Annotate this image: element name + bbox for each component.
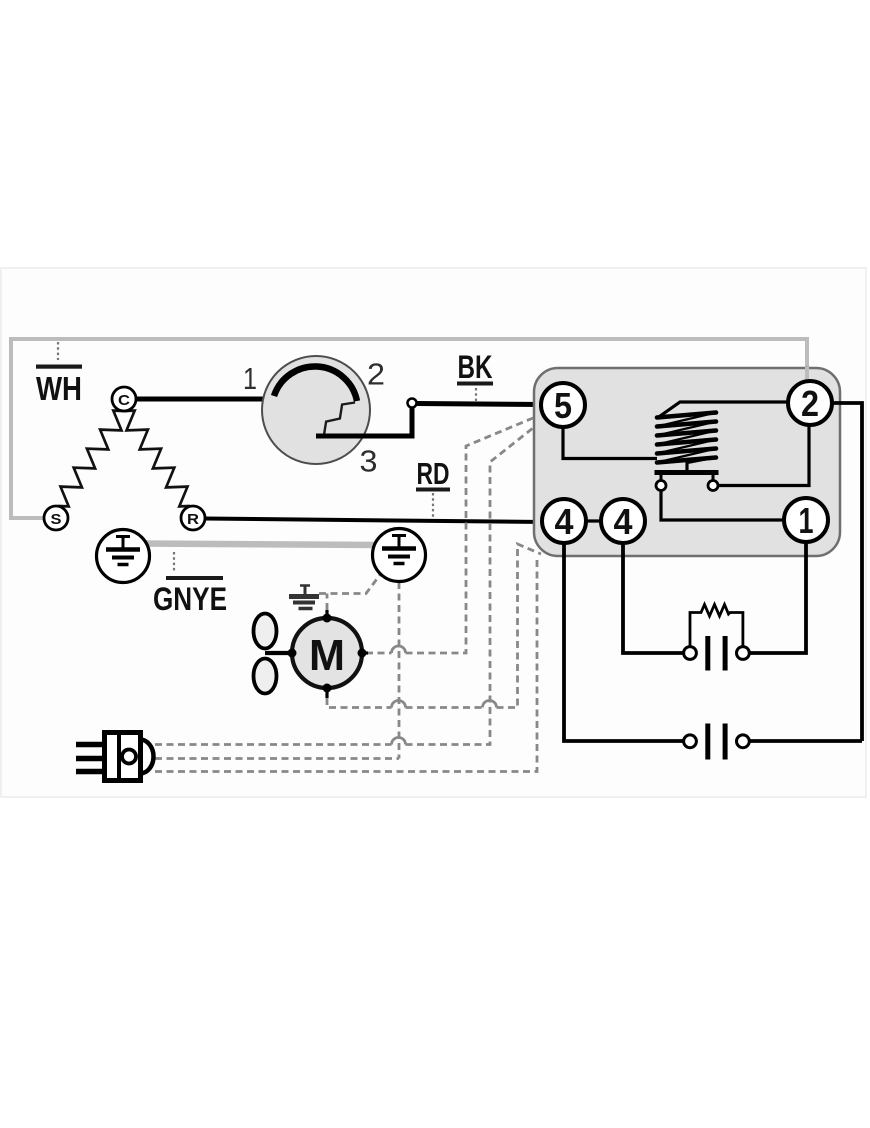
svg-text:R: R bbox=[187, 511, 199, 528]
relay terminal 5 bbox=[541, 383, 585, 427]
svg-text:GNYE: GNYE bbox=[153, 581, 227, 617]
contact legs bbox=[660, 474, 663, 480]
svg-text:3: 3 bbox=[360, 444, 378, 479]
dashed: earth lead from ground-2 to plug middle bbox=[155, 582, 399, 759]
wire left contact to terminal 1 bbox=[661, 491, 785, 520]
hop over earth dash bbox=[392, 701, 406, 708]
svg-text:1: 1 bbox=[243, 361, 257, 396]
dashed: fan motor top lead to earth bbox=[319, 574, 381, 611]
relay terminal 4a bbox=[542, 499, 586, 543]
svg-text:2: 2 bbox=[367, 357, 385, 392]
wire WH drop into box to terminal 2 bbox=[805, 367, 809, 382]
hop over earth dash bbox=[392, 646, 406, 653]
wire GNYE (gray) between protective-earth symbols bbox=[140, 544, 382, 546]
wire right contact to terminal 2 bbox=[719, 424, 810, 486]
label BK bbox=[457, 349, 493, 401]
wire run capacitor to right rail bbox=[746, 739, 863, 743]
thermostat contact arc bbox=[274, 366, 357, 401]
dashed: fan motor right lead to relay bbox=[366, 418, 533, 653]
svg-text:WH: WH bbox=[36, 370, 82, 407]
svg-text:M: M bbox=[309, 631, 345, 680]
relay armature bar bbox=[655, 470, 719, 475]
terminal R bbox=[181, 506, 205, 530]
svg-text:5: 5 bbox=[554, 385, 572, 426]
svg-text:1: 1 bbox=[799, 500, 814, 541]
node junction bbox=[408, 399, 417, 408]
ground symbol 1 (in circle) bbox=[97, 530, 150, 583]
run capacitor bbox=[684, 724, 750, 760]
label GNYE bbox=[153, 552, 227, 617]
svg-text:RD: RD bbox=[417, 456, 450, 491]
label RD bbox=[416, 456, 450, 517]
dashed: fan motor bottom lead to terminal 4 bbox=[327, 544, 541, 708]
wire BK from thermostat terminal 3 to node bbox=[316, 405, 412, 436]
relay terminal 4b bbox=[601, 499, 645, 543]
wire terminal 4b down to start capacitor bbox=[623, 542, 683, 653]
svg-text:2: 2 bbox=[801, 383, 819, 424]
dashed: plug bottom lead to relay box bbox=[155, 557, 537, 772]
relay contact right bbox=[708, 481, 718, 491]
terminal C bbox=[112, 387, 136, 411]
wire coil top to terminal 2 bbox=[658, 402, 789, 418]
svg-text:4: 4 bbox=[614, 501, 633, 542]
fan blades bbox=[254, 614, 277, 649]
svg-text:S: S bbox=[51, 511, 62, 528]
coil to armature stub bbox=[685, 462, 688, 471]
fan motor M bbox=[265, 610, 368, 698]
thermostat internal zigzag bbox=[316, 403, 355, 437]
bleed resistor across start capacitor bbox=[690, 605, 743, 647]
scan background panel bbox=[1, 268, 866, 797]
start capacitor bbox=[684, 636, 750, 671]
mains plug bbox=[76, 733, 154, 781]
dashed: plug top lead to relay bbox=[155, 428, 533, 745]
ground symbol 2 (in circle) bbox=[373, 529, 426, 582]
wire WH (gray) from S up over the top to relay terminal 2 bbox=[11, 339, 807, 518]
relay coil bbox=[657, 413, 716, 464]
svg-text:C: C bbox=[118, 392, 130, 409]
wire RD from R to relay terminal 4 bbox=[204, 519, 544, 523]
relay/protector box bbox=[534, 368, 840, 556]
ground symbol small (fan motor) bbox=[289, 585, 319, 609]
wire terminal 1 down to start capacitor bbox=[750, 541, 807, 653]
wire terminal 2 to right rail bbox=[831, 403, 862, 741]
wire BK from C to thermostat bbox=[124, 397, 265, 402]
terminal S bbox=[44, 506, 68, 530]
relay contact left bbox=[656, 481, 666, 491]
svg-text:4: 4 bbox=[555, 501, 574, 542]
thermostat body bbox=[262, 356, 370, 464]
wire terminal 5 to relay coil bbox=[563, 426, 657, 459]
label WH bbox=[36, 342, 82, 407]
svg-text:BK: BK bbox=[458, 349, 493, 385]
hop over plug lead dash bbox=[483, 701, 497, 708]
motor winding C-R bbox=[124, 411, 190, 507]
wire BK from node to relay terminal 5 bbox=[417, 404, 543, 405]
wire between terminals 4a and 4b bbox=[585, 519, 602, 522]
motor winding C-S bbox=[58, 411, 124, 507]
wire terminal 4a down to run capacitor bbox=[564, 542, 683, 741]
hop over earth dash bbox=[392, 738, 406, 745]
relay terminal 2 bbox=[788, 381, 832, 425]
relay terminal 1 bbox=[784, 498, 828, 542]
